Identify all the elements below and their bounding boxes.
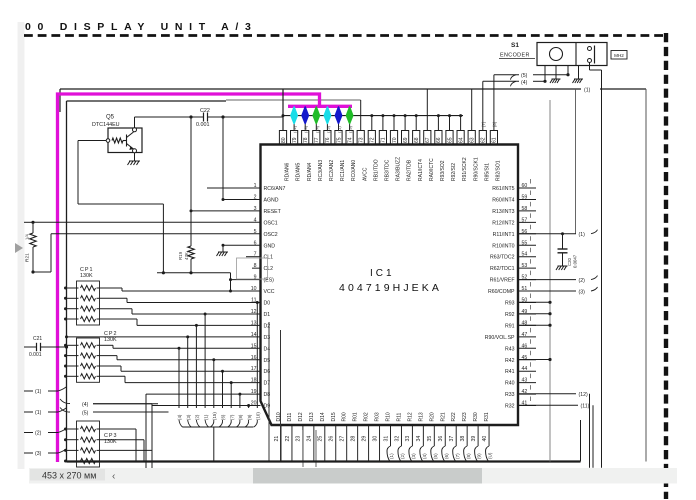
svg-text:35: 35 <box>427 436 433 442</box>
svg-text:R41: R41 <box>505 369 515 375</box>
wire long vertical e <box>302 430 304 467</box>
pin 70 RA3/BUZZ <box>390 131 397 145</box>
svg-text:R91: R91 <box>505 323 515 329</box>
svg-text:(7): (7) <box>229 414 234 420</box>
svg-text:R60/COMP: R60/COMP <box>488 289 515 295</box>
wire long vertical d <box>280 330 282 462</box>
resistor row of CP3 <box>66 460 79 462</box>
svg-text:R31: R31 <box>484 412 490 421</box>
wire net (5) to D8 <box>93 411 146 413</box>
pin 65 R92/SI2 <box>446 131 453 145</box>
svg-text:VCC: VCC <box>264 289 275 295</box>
svg-text:(8): (8) <box>492 121 497 127</box>
svg-text:DTC144EU: DTC144EU <box>92 122 120 128</box>
svg-text:Q5: Q5 <box>106 115 115 121</box>
pin 67 RA0/ICTC <box>424 131 431 145</box>
pin 61 R82/SO1 <box>490 131 497 145</box>
wire left edge stub <box>24 221 33 223</box>
svg-text:(1): (1) <box>203 414 208 420</box>
svg-text:64: 64 <box>458 137 464 143</box>
svg-text:ENCODER: ENCODER <box>500 53 530 59</box>
svg-text:130K: 130K <box>104 337 117 343</box>
wire CP1 row to pin 11 <box>100 297 128 299</box>
svg-text:27: 27 <box>340 436 346 442</box>
wire pin 10 stub <box>231 290 261 292</box>
svg-text:61: 61 <box>492 137 498 143</box>
svg-text:D14: D14 <box>320 412 326 421</box>
svg-text:(2): (2) <box>195 414 200 420</box>
svg-text:24: 24 <box>307 436 313 442</box>
wire net (5) <box>511 75 517 80</box>
node left connector (3) <box>24 452 33 454</box>
svg-text:R90/SCK1: R90/SCK1 <box>473 157 479 181</box>
svg-text:R11/INT1: R11/INT1 <box>493 232 515 238</box>
svg-text:‹: ‹ <box>112 471 115 482</box>
wire long vertical c <box>268 322 270 462</box>
wire pin 38 drop <box>466 426 468 446</box>
svg-text:36: 36 <box>438 436 444 442</box>
svg-text:63: 63 <box>470 137 476 143</box>
viewer cursor triangle <box>15 243 23 253</box>
svg-text:R40: R40 <box>505 381 515 387</box>
svg-text:R13: R13 <box>418 412 424 421</box>
svg-text:0.001: 0.001 <box>196 122 210 128</box>
wire net (4) <box>511 81 517 86</box>
wire C22 left drop <box>190 117 192 246</box>
svg-text:R90/VOL.SP: R90/VOL.SP <box>485 335 515 341</box>
pin 74 RC0/AN0 <box>346 131 353 145</box>
wire pin 33 drop <box>411 426 413 446</box>
svg-text:37: 37 <box>449 436 455 442</box>
svg-text:R85/SI1: R85/SI1 <box>484 163 490 181</box>
wire pin 24 drop <box>313 426 315 462</box>
resistor row of CP3 <box>66 428 79 430</box>
svg-text:RD/AN5: RD/AN5 <box>296 162 302 181</box>
wire D3 long row <box>67 336 261 338</box>
pin 79 RD/AN5 <box>291 131 298 145</box>
svg-text:(4): (4) <box>422 453 427 459</box>
wire pin 1 stub <box>207 187 261 189</box>
svg-text:R11: R11 <box>396 412 402 421</box>
node left connector (2) <box>24 432 33 434</box>
svg-text:(5): (5) <box>433 453 438 459</box>
wire pin 2 stub <box>223 198 261 200</box>
wire Q5 base left <box>78 140 106 142</box>
svg-text:68: 68 <box>414 137 420 143</box>
wire fan column (9) <box>248 406 250 408</box>
wire fan column (15) <box>213 360 215 408</box>
wire encoder contact to net <box>589 63 591 71</box>
svg-text:R21: R21 <box>25 253 31 262</box>
svg-text:(13): (13) <box>325 125 330 133</box>
svg-text:R60/INT4: R60/INT4 <box>492 197 514 203</box>
svg-text:(1): (1) <box>579 232 586 238</box>
svg-text:25: 25 <box>318 436 324 442</box>
wire common row <box>157 272 231 274</box>
svg-text:32: 32 <box>394 436 400 442</box>
wire R19 lower <box>190 259 192 273</box>
resistor row of CP3 <box>66 439 79 441</box>
svg-text:(12): (12) <box>292 125 297 133</box>
ground pin6 <box>222 245 224 252</box>
wire pin 40 drop <box>488 426 490 446</box>
svg-text:D0: D0 <box>264 301 271 307</box>
svg-text:66: 66 <box>436 137 442 143</box>
status size box <box>30 469 105 481</box>
svg-text:30: 30 <box>372 436 378 442</box>
node (3) <box>518 290 576 292</box>
svg-text:(4): (4) <box>521 80 528 86</box>
wire CP1 row to pin 13 <box>100 318 138 320</box>
pin 66 R93/SO2 <box>435 131 442 145</box>
svg-text:(9): (9) <box>247 414 252 420</box>
resistor row of CP2 <box>66 375 79 377</box>
pin 75 RC1/AN1 <box>335 131 342 145</box>
wire CP3 row right <box>100 428 137 430</box>
svg-text:R61/INT5: R61/INT5 <box>492 186 514 192</box>
label MH2 <box>611 51 627 60</box>
node left connector (1) <box>24 390 33 392</box>
svg-text:(8): (8) <box>238 414 243 420</box>
svg-text:OSC1: OSC1 <box>264 220 278 226</box>
pin 73 AVCC <box>357 131 364 145</box>
node (12) <box>518 393 576 395</box>
svg-text:39: 39 <box>471 436 477 442</box>
svg-text:22: 22 <box>285 436 291 442</box>
svg-text:R92: R92 <box>505 312 515 318</box>
svg-text:R23: R23 <box>462 412 468 421</box>
svg-text:70: 70 <box>392 137 398 143</box>
resistor row of CP1 <box>66 297 79 299</box>
svg-text:RB1/TDO: RB1/TDO <box>373 159 379 181</box>
svg-text:R62/TDC1: R62/TDC1 <box>490 266 515 272</box>
svg-text:75: 75 <box>336 137 342 143</box>
svg-text:130K: 130K <box>80 273 93 279</box>
svg-text:78: 78 <box>303 137 309 143</box>
svg-text:(9): (9) <box>477 453 482 459</box>
svg-text:R00: R00 <box>342 412 348 421</box>
wire right pin commons <box>518 301 550 303</box>
node (1) mid right <box>518 233 576 235</box>
svg-text:R42: R42 <box>505 358 515 364</box>
wire pin 6 stub <box>223 244 261 246</box>
wire CP1 row to pin 10 <box>100 287 123 289</box>
svg-text:(3): (3) <box>579 290 586 296</box>
svg-text:77: 77 <box>314 137 320 143</box>
svg-text:(1): (1) <box>389 453 394 459</box>
svg-text:404719HJEKA: 404719HJEKA <box>339 282 442 294</box>
svg-text:CL2: CL2 <box>264 266 274 272</box>
pin 62 R85/SI1 <box>479 131 486 145</box>
wire pin 3 stub <box>191 210 261 212</box>
wire OSC2 <box>51 233 261 235</box>
svg-text:D12: D12 <box>298 412 304 421</box>
svg-text:C21: C21 <box>33 336 42 342</box>
svg-text:(ES): (ES) <box>264 278 275 284</box>
wire top bus <box>60 88 646 90</box>
wire fan column (10) <box>256 303 258 409</box>
svg-text:R63/TDC2: R63/TDC2 <box>490 255 515 261</box>
wire pin 31 drop <box>390 426 392 446</box>
svg-text:0.001: 0.001 <box>29 352 42 358</box>
svg-text:R43: R43 <box>505 346 515 352</box>
svg-text:31: 31 <box>383 436 389 442</box>
wire fan column (4) <box>178 348 180 408</box>
wire to pins 9 10 <box>230 273 232 291</box>
svg-text:R22: R22 <box>451 412 457 421</box>
dashed top border <box>24 34 663 37</box>
pin 69 RA2/TDB <box>402 131 409 145</box>
svg-text:R32: R32 <box>505 404 515 410</box>
wire net (4) to D9 <box>93 403 152 405</box>
svg-text:(3): (3) <box>35 451 42 457</box>
svg-text:RB3/TDC: RB3/TDC <box>385 159 391 181</box>
svg-text:(2): (2) <box>35 431 42 437</box>
node connector (4) <box>60 399 70 404</box>
svg-text:AVCC: AVCC <box>362 167 368 181</box>
svg-text:69: 69 <box>403 137 409 143</box>
svg-text:73: 73 <box>359 137 365 143</box>
op-amp/micro IC1 body <box>261 145 519 426</box>
pin 64 R91/SCK2 <box>457 131 464 145</box>
wire pin 26 drop <box>335 426 337 462</box>
svg-text:62: 62 <box>481 137 487 143</box>
svg-text:C20: C20 <box>567 258 572 266</box>
status bar <box>29 468 677 484</box>
wire fan column (3) <box>187 337 189 408</box>
wire fan column (2) <box>195 325 197 408</box>
svg-text:(5): (5) <box>521 73 528 79</box>
switch contact b <box>588 59 592 63</box>
wire CP2 row to pin 17 <box>100 365 122 367</box>
svg-text:33: 33 <box>405 436 411 442</box>
pin 76 RC2/AN2 <box>324 131 331 145</box>
svg-text:RC6/AN7: RC6/AN7 <box>264 186 286 192</box>
svg-text:R91/SCK2: R91/SCK2 <box>462 157 468 181</box>
resistor row of CP1 <box>66 308 79 310</box>
wire fan column (6) <box>222 371 224 408</box>
wire inner left rectangle <box>66 101 68 462</box>
wire pin 29 drop <box>368 426 370 462</box>
svg-text:(12): (12) <box>579 392 588 398</box>
svg-text:(1): (1) <box>35 410 42 416</box>
dashed right border <box>664 33 668 499</box>
svg-text:(13): (13) <box>303 125 308 133</box>
svg-text:80: 80 <box>281 137 287 143</box>
resistor row of CP2 <box>66 365 79 367</box>
svg-text:(4): (4) <box>177 414 182 420</box>
resistor row of CP2 <box>66 355 79 357</box>
wire right long gray vertical <box>549 100 551 462</box>
wire CP3 row right <box>100 449 153 451</box>
svg-text:RC0/AN0: RC0/AN0 <box>351 160 357 181</box>
wire CP3 row right <box>100 439 145 441</box>
svg-text:21: 21 <box>274 436 280 442</box>
wire pin 23 drop <box>302 426 304 462</box>
svg-text:RC2/AN2: RC2/AN2 <box>329 160 335 181</box>
svg-text:65: 65 <box>447 137 453 143</box>
svg-text:(11): (11) <box>337 126 342 133</box>
svg-text:R93/SO2: R93/SO2 <box>440 160 446 181</box>
resistor row of CP1 <box>66 318 79 320</box>
svg-text:IC1: IC1 <box>370 268 395 279</box>
wire long vertical f <box>315 430 317 467</box>
svg-text:(3): (3) <box>186 414 191 420</box>
svg-text:(7): (7) <box>481 121 486 127</box>
svg-text:R12/INT2: R12/INT2 <box>492 220 514 226</box>
svg-text:S1: S1 <box>511 42 519 49</box>
svg-text:R12: R12 <box>407 412 413 421</box>
svg-text:R02: R02 <box>364 412 370 421</box>
top pin bus with dots <box>283 115 463 117</box>
svg-text:D11: D11 <box>287 412 293 421</box>
svg-text:67: 67 <box>425 137 431 143</box>
wire CP1 row to pin 12 <box>100 308 133 310</box>
wire pin 27 drop <box>346 426 348 462</box>
svg-text:R92/SI2: R92/SI2 <box>451 163 457 181</box>
svg-text:RA1/ICT4: RA1/ICT4 <box>418 159 424 181</box>
wire net 4 5 drops <box>145 394 147 470</box>
svg-text:R19: R19 <box>178 251 183 260</box>
wire pin 7 stub <box>246 256 261 258</box>
wire pin 21 drop <box>280 426 282 462</box>
svg-text:RESET: RESET <box>264 209 282 215</box>
svg-text:(6): (6) <box>444 453 449 459</box>
svg-text:28: 28 <box>350 436 356 442</box>
wire pin 28 drop <box>357 426 359 462</box>
wire right vertical net (1) <box>645 89 647 462</box>
ground Q5 emitter <box>134 153 136 161</box>
svg-text:79: 79 <box>292 137 298 143</box>
switch contact a <box>588 47 592 51</box>
pin 68 RA1/ICT4 <box>413 131 420 145</box>
svg-text:RA3/BUZZ: RA3/BUZZ <box>396 157 402 181</box>
svg-text:(3): (3) <box>411 453 416 459</box>
svg-text:MH2: MH2 <box>614 53 624 58</box>
wire fan column (7) <box>230 383 232 408</box>
pin 63 R90/SCK1 <box>468 131 475 145</box>
svg-text:R33: R33 <box>505 392 515 398</box>
wire Q5 collector to C22 net <box>134 117 136 128</box>
svg-text:D13: D13 <box>309 412 315 421</box>
svg-text:(4): (4) <box>82 402 89 408</box>
pin 78 RD/AN4 <box>302 131 309 145</box>
svg-text:(7): (7) <box>455 453 460 459</box>
magenta highlight wire <box>58 94 353 462</box>
wire gray segment to pin 73 <box>226 99 361 101</box>
svg-text:R20: R20 <box>429 412 435 421</box>
svg-text:AGND: AGND <box>264 197 279 203</box>
node (2) <box>518 279 576 281</box>
wire pin 32 drop <box>400 426 402 446</box>
wire pin 39 drop <box>477 426 479 446</box>
svg-text:(6): (6) <box>221 414 226 420</box>
wire fan column (1) <box>204 314 206 408</box>
svg-text:23: 23 <box>296 436 302 442</box>
pin 80 RD/AN6 <box>279 131 286 145</box>
wire fan column (8) <box>239 394 241 408</box>
wire pin 9 stub <box>231 279 261 281</box>
wire pin 22 drop <box>291 426 293 462</box>
svg-text:R30: R30 <box>473 412 479 421</box>
svg-text:R82/SO1: R82/SO1 <box>496 160 502 181</box>
resistor row of CP1 <box>66 287 79 289</box>
wire CP2 row to pin 16 <box>100 355 118 357</box>
svg-text:72: 72 <box>370 137 376 143</box>
wire pin 35 drop <box>433 426 435 446</box>
capacitor C20 0.0047 <box>562 234 564 249</box>
component box near VCC pin <box>237 258 268 279</box>
resistor row of CP3 <box>66 449 79 451</box>
svg-text:453 x 270 мм: 453 x 270 мм <box>42 471 96 481</box>
wire pin 30 drop <box>379 426 381 462</box>
svg-text:OSC2: OSC2 <box>264 232 278 238</box>
svg-text:34: 34 <box>416 436 422 442</box>
svg-text:(8): (8) <box>466 453 471 459</box>
wire bottom bus <box>67 460 581 462</box>
wire pin 37 drop <box>455 426 457 446</box>
svg-text:(11): (11) <box>581 404 590 410</box>
svg-text:38: 38 <box>460 436 466 442</box>
svg-text:RA0/ICTC: RA0/ICTC <box>429 158 435 181</box>
wire pin 8 stub <box>252 267 261 269</box>
wire right vertical upper <box>575 89 577 234</box>
svg-text:(10): (10) <box>256 412 261 420</box>
svg-text:C22: C22 <box>200 108 210 114</box>
pin 71 RB3/TDC <box>379 131 386 145</box>
wire C22 right drop <box>222 117 224 199</box>
svg-text:26: 26 <box>329 436 335 442</box>
svg-text:RD/AN6: RD/AN6 <box>285 162 291 181</box>
svg-text:R10: R10 <box>386 412 392 421</box>
wire OSC1 <box>33 221 261 223</box>
svg-text:RD/AN4: RD/AN4 <box>307 162 313 181</box>
svg-text:00 DISPLAY UNIT A/3: 00 DISPLAY UNIT A/3 <box>25 21 258 33</box>
page left edge shading <box>18 22 25 469</box>
pin 72 RB1/TDO <box>368 131 375 145</box>
svg-text:71: 71 <box>381 137 387 143</box>
svg-text:R10/INT0: R10/INT0 <box>492 243 514 249</box>
svg-text:R61/VREF: R61/VREF <box>490 278 515 284</box>
resistor row of CP2 <box>66 344 79 346</box>
wire pin 25 drop <box>324 426 326 462</box>
svg-text:R01: R01 <box>353 412 359 421</box>
wire bus right corner <box>580 420 582 462</box>
svg-text:(2): (2) <box>400 453 405 459</box>
wire pin 34 drop <box>422 426 424 446</box>
svg-text:0.0047: 0.0047 <box>573 254 578 268</box>
svg-text:(1): (1) <box>584 88 591 94</box>
svg-text:RC3/AN3: RC3/AN3 <box>318 160 324 181</box>
svg-text:(2): (2) <box>579 278 586 284</box>
svg-text:GND: GND <box>264 243 276 249</box>
wire CP2 row to pin 18 <box>100 375 126 377</box>
svg-text:(13): (13) <box>348 125 353 133</box>
svg-text:D15: D15 <box>331 412 337 421</box>
wire encoder pins down <box>544 66 546 82</box>
svg-text:74: 74 <box>347 137 353 143</box>
svg-text:RC1/AN1: RC1/AN1 <box>340 160 346 181</box>
svg-text:D1: D1 <box>264 312 271 318</box>
node (11) <box>518 404 578 406</box>
svg-text:29: 29 <box>361 436 367 442</box>
wire CP2 row to pin 15 <box>100 344 114 346</box>
svg-text:(15): (15) <box>212 412 217 420</box>
svg-text:R03: R03 <box>375 412 381 421</box>
svg-text:(U): (U) <box>488 452 493 459</box>
svg-text:(14): (14) <box>314 125 319 133</box>
svg-text:76: 76 <box>325 137 331 143</box>
